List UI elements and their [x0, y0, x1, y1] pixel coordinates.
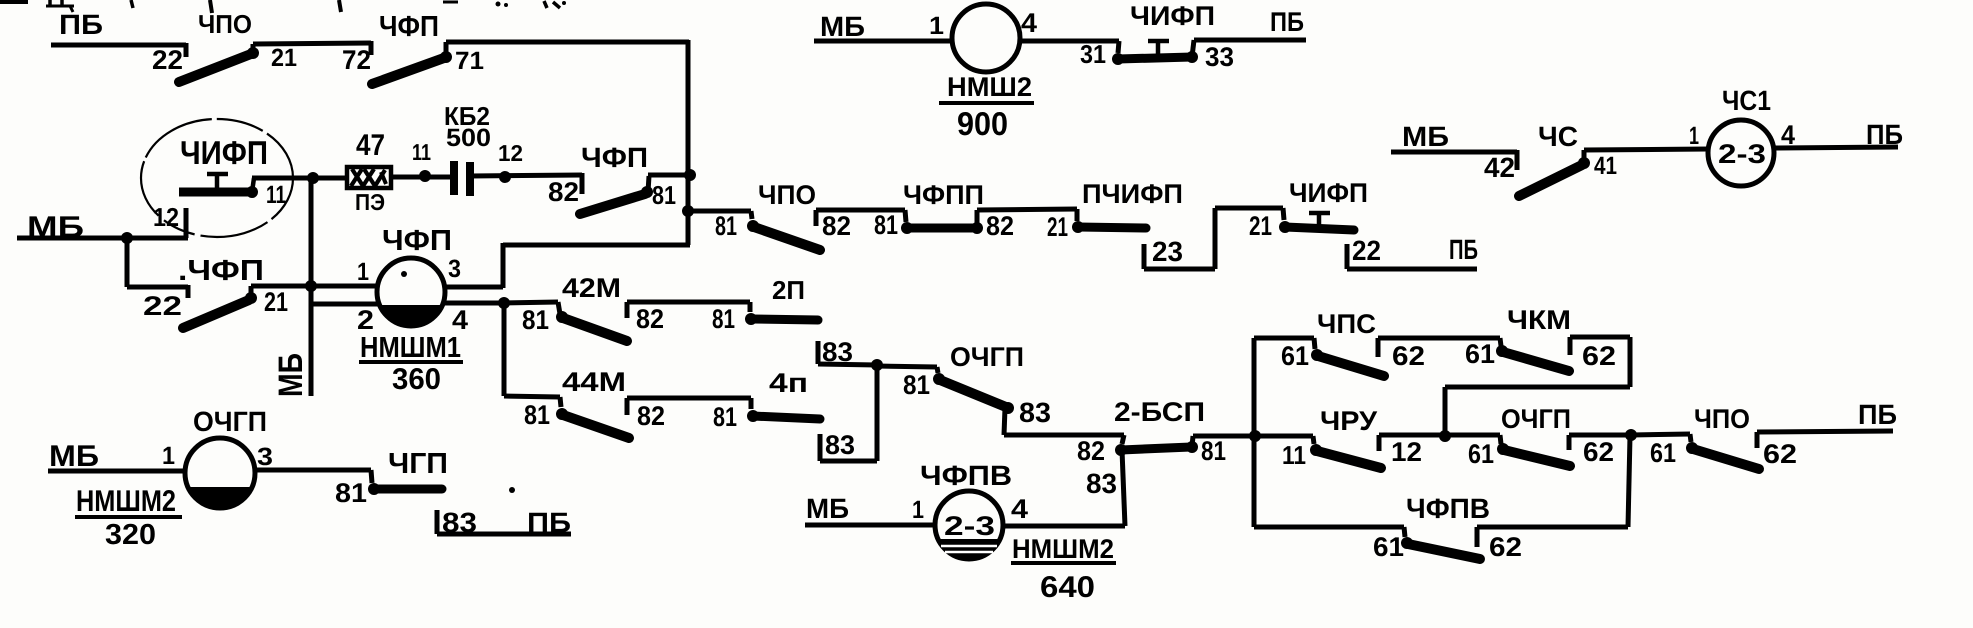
- svg-text:1: 1: [357, 258, 369, 286]
- node junction ЧКМ loop: [1439, 430, 1451, 442]
- relay coil ЧФПВ НМШМ2-640: [935, 491, 1003, 559]
- type underline НМШМ2-640: [1011, 561, 1116, 565]
- wire node to ЧПО armature: [1631, 434, 1691, 442]
- svg-text:31: 31: [1080, 39, 1106, 69]
- pin 62 of contact ЧПО (right): [1763, 439, 1797, 469]
- pin 82 of contact 2-БСП: [1077, 436, 1105, 466]
- label ОЧГП (right): [1501, 404, 1571, 434]
- svg-text:81: 81: [874, 210, 898, 240]
- node ПБ of ЧС chain: [1866, 119, 1903, 150]
- svg-text:ПБ: ПБ: [1866, 119, 1903, 150]
- pin 71 of contact ЧФП: [455, 47, 484, 75]
- svg-text:62: 62: [1489, 532, 1522, 562]
- svg-text:83: 83: [825, 430, 855, 460]
- node МБ of ЧФПВ chain: [806, 493, 849, 524]
- pin 21 of contact .ЧФП: [264, 287, 288, 317]
- pin 21 of contact ЧИФП (right): [1249, 211, 1272, 241]
- wire .ЧФП 21 to rail: [251, 284, 311, 289]
- svg-text:62: 62: [1582, 341, 1616, 371]
- wire rail to ЧПО armature: [688, 211, 752, 219]
- svg-text:44М: 44М: [562, 367, 626, 397]
- svg-text:21: 21: [271, 44, 297, 72]
- wire ОЧГП 62 to node: [1569, 435, 1631, 450]
- svg-text:640: 640: [1040, 571, 1095, 604]
- contact .ЧФП 22-21 (break): [183, 286, 257, 328]
- label ЧПО: [198, 9, 252, 39]
- label 2П: [772, 275, 805, 305]
- svg-text:82: 82: [636, 304, 664, 334]
- svg-text:72: 72: [342, 45, 371, 75]
- wire relay ЧФПВ pin4 up: [1003, 524, 1125, 529]
- label ЧФП (capacitor chain): [581, 142, 648, 173]
- pin 83 of ЧГП stub: [442, 507, 477, 538]
- svg-text:22: 22: [152, 45, 183, 75]
- svg-text:ЧФП: ЧФП: [581, 142, 648, 173]
- contact 2-БСП 82-81 (closed bar): [1115, 436, 1198, 456]
- svg-text:82: 82: [986, 211, 1014, 241]
- front-contact mark of ЧИФП (top): [1148, 41, 1169, 56]
- contact ЧИФП 21-22 (make, armature bar): [1279, 221, 1354, 233]
- svg-text:ЧИФП: ЧИФП: [180, 134, 268, 171]
- svg-text:ОЧГП: ОЧГП: [193, 406, 267, 437]
- pin 61 of contact ЧФПВ: [1373, 532, 1404, 562]
- svg-text:12: 12: [498, 140, 523, 166]
- label ЧПО (middle): [758, 180, 816, 210]
- svg-text:11: 11: [412, 139, 431, 165]
- node ПБ (right end): [1858, 399, 1897, 430]
- pin 1 of relay ЧФПВ: [912, 496, 924, 524]
- label ЧКМ: [1507, 305, 1571, 335]
- wire ОЧГП 83 down to 2-БСП: [1004, 408, 1124, 444]
- pin 1 of relay ЧС1: [1689, 122, 1699, 150]
- svg-text:61: 61: [1650, 438, 1676, 468]
- label ЧФПВ (contact): [1406, 493, 1490, 524]
- label ЧФП of relay: [382, 225, 452, 257]
- wire 83 lower loop: [820, 365, 877, 461]
- svg-text:71: 71: [455, 47, 484, 75]
- label ЧПС: [1317, 309, 1376, 339]
- svg-text:2: 2: [357, 305, 374, 335]
- pin 83 upper label: [822, 337, 853, 367]
- svg-text:МБ: МБ: [272, 353, 310, 397]
- svg-text:320: 320: [105, 519, 156, 551]
- svg-text:61: 61: [1281, 341, 1309, 371]
- front-contact mark of ЧИФП (right): [1309, 213, 1330, 228]
- node junction right rail: [1625, 429, 1637, 441]
- label ЧИФП (encircled): [180, 134, 268, 171]
- svg-text:4: 4: [1021, 8, 1037, 38]
- contact ЧПО 61-62 (break, armature left): [1686, 442, 1759, 469]
- label ОЧГП of relay: [193, 406, 267, 437]
- contact ЧГП 81 (half bar): [368, 483, 442, 495]
- wire ЧФПВ 62 to right rail: [1477, 436, 1630, 547]
- pin 11 of contact ЧИФП: [266, 181, 286, 209]
- type underline НМШМ1: [359, 360, 463, 364]
- wire ЧПО 62 to ПБ: [1757, 431, 1893, 448]
- pin 81 of contact 44М: [524, 400, 550, 430]
- label 2-БСП: [1114, 397, 1205, 427]
- contact ЧПО 22-21 (break): [179, 44, 259, 82]
- svg-text:3: 3: [448, 255, 461, 283]
- pin 81 of contact ЧФПП: [874, 210, 898, 240]
- label МБ (rotated stub label): [272, 353, 310, 397]
- wire ЧРУ 12 to ОЧГП: [1379, 435, 1500, 451]
- value 360 of relay ЧФП: [392, 363, 441, 396]
- pin 4 of relay ЧФПВ: [1011, 494, 1028, 524]
- wire pin4 down to 44М row: [504, 303, 561, 407]
- pin 83 lower label: [825, 430, 855, 460]
- pin 1 of relay ЧФП: [357, 258, 369, 286]
- wire МБ to ЧС terminal 42: [1391, 150, 1517, 170]
- svg-text:360: 360: [392, 363, 441, 396]
- pin 81 of contact ЧГП: [335, 478, 367, 508]
- svg-text:ЧФП: ЧФП: [379, 11, 439, 43]
- svg-text:22: 22: [143, 291, 182, 321]
- wire ЧПС 62 to ЧКМ: [1378, 338, 1500, 357]
- stray mark top edge 5: [339, 0, 341, 12]
- pin 81 of contact 42М: [522, 305, 549, 335]
- svg-text:ЧПО: ЧПО: [1694, 404, 1750, 434]
- pin 61 of contact ЧКМ: [1465, 339, 1495, 369]
- svg-text:82: 82: [637, 401, 665, 431]
- type НМШМ2 of relay ЧФПВ: [1012, 534, 1114, 564]
- contact ЧФП 82-81 (break): [580, 176, 653, 214]
- pin 81 of contact 2-БСП: [1201, 436, 1226, 466]
- svg-text:ПЭ: ПЭ: [355, 189, 385, 215]
- terminal 83-ПБ stub of ЧГП: [437, 510, 571, 534]
- svg-text:33: 33: [1205, 42, 1234, 72]
- pin 82 of contact 44М: [637, 401, 665, 431]
- pin 81 of contact ОЧГП: [903, 370, 930, 400]
- svg-text:ЧРУ: ЧРУ: [1320, 406, 1378, 436]
- svg-text:81: 81: [522, 305, 549, 335]
- contact ЧФПП 81-82 (closed bar): [901, 210, 983, 234]
- wire pin1 rail to relay ЧФП: [311, 284, 378, 289]
- svg-text:81: 81: [903, 370, 930, 400]
- value 2-3 of relay ЧС1: [1718, 139, 1766, 169]
- svg-text:1: 1: [912, 496, 924, 524]
- pin 4 of relay НМШ2: [1021, 8, 1037, 38]
- wire pin2 corner: [311, 302, 379, 307]
- wire bottom branch to ЧФПВ: [1254, 527, 1405, 537]
- label ЧИФП (top): [1130, 1, 1215, 31]
- value 47 of resistor: [356, 129, 385, 162]
- terminal 22 step-down of ЧИФП: [1347, 244, 1477, 269]
- svg-text:12: 12: [1391, 437, 1422, 467]
- svg-text:МБ: МБ: [49, 440, 99, 473]
- wire relay ЧС1 pin4 to ПБ: [1774, 147, 1898, 148]
- value 640 of relay ЧФПВ: [1040, 571, 1095, 604]
- wire middle branch to ЧРУ: [1255, 436, 1314, 444]
- pin 21 of contact ЧПО: [271, 44, 297, 72]
- svg-text:81: 81: [713, 402, 737, 432]
- node junction rail-pin1: [305, 280, 317, 292]
- svg-text:23: 23: [1152, 236, 1183, 267]
- svg-text:ОЧГП: ОЧГП: [950, 342, 1024, 372]
- pin 62 of contact ЧФПВ: [1489, 532, 1522, 562]
- svg-text:ОЧГП: ОЧГП: [1501, 404, 1571, 434]
- node A junction: [307, 172, 319, 184]
- wire relay ОЧГП pin3 to ЧГП: [254, 470, 372, 483]
- svg-text:62: 62: [1392, 341, 1425, 371]
- value 500 of capacitor: [446, 124, 491, 152]
- pin 83 of relay ЧФПВ riser: [1086, 468, 1117, 499]
- pin 3 of relay ОЧГП: [257, 443, 273, 471]
- wire tick to 4П armature: [749, 398, 754, 409]
- svg-text:ЧИФП: ЧИФП: [1289, 178, 1368, 208]
- svg-text:ЧПО: ЧПО: [198, 9, 252, 39]
- node junction rail-chain: [682, 205, 694, 217]
- svg-text:21: 21: [264, 287, 288, 317]
- pin 81 of contact 2П: [712, 304, 735, 334]
- capacitor C КБ2 500: [454, 161, 470, 196]
- label 4П: [769, 368, 808, 398]
- label ЧРУ: [1320, 406, 1378, 436]
- svg-text:21: 21: [1047, 212, 1068, 242]
- wire 2-БСП to right network: [1193, 434, 1256, 439]
- svg-text:ЧГП: ЧГП: [388, 448, 448, 480]
- svg-text:ПЧИФП: ПЧИФП: [1082, 179, 1183, 209]
- svg-text:ЧПО: ЧПО: [758, 180, 816, 210]
- svg-text:1: 1: [929, 12, 944, 40]
- svg-text:82: 82: [1077, 436, 1105, 466]
- svg-text:62: 62: [1583, 437, 1614, 467]
- pin 31 of contact ЧИФП (top): [1080, 39, 1106, 69]
- value 320 of relay ОЧГП: [105, 519, 156, 551]
- label ЧФПП: [903, 180, 984, 210]
- type underline НМШ2: [939, 101, 1034, 105]
- node junction МБ split: [121, 232, 133, 244]
- svg-text:42М: 42М: [562, 273, 621, 303]
- pin 61 of contact ОЧГП (right): [1468, 439, 1494, 469]
- wire ЧПО 82 to ЧФПП: [816, 210, 905, 226]
- contact ЧФП 72-71 (break): [372, 42, 452, 84]
- pin 81 of contact ЧПО (middle): [715, 211, 737, 241]
- relay coil ЧС1: [1708, 120, 1774, 186]
- node МБ of ЧС chain: [1402, 121, 1449, 152]
- relay coil ОЧГП НМШМ2-320: [185, 438, 255, 508]
- stray mark top edge 1: [0, 0, 28, 4]
- contact ЧС 42-41 (break): [1519, 150, 1590, 196]
- label ЧС1 of relay: [1722, 85, 1771, 116]
- pin 82 of contact 42М: [636, 304, 664, 334]
- svg-text:61: 61: [1465, 339, 1495, 369]
- stray mark top edge 2: [46, 0, 74, 12]
- terminal 83 upper stub: [818, 341, 877, 365]
- wire МБ feed: [17, 236, 127, 241]
- contact ЧПС 61-62 (break, armature left): [1311, 349, 1384, 376]
- svg-text:ЧФПВ: ЧФПВ: [1406, 493, 1490, 524]
- pin 4 of relay ЧС1: [1781, 120, 1795, 150]
- svg-text:НМШМ2: НМШМ2: [76, 485, 176, 518]
- wire right rail down: [686, 40, 691, 245]
- svg-text:83: 83: [442, 507, 477, 538]
- pin 41 of contact ЧС: [1594, 152, 1617, 180]
- wire relay ЧФП pin4: [444, 301, 504, 306]
- pin 11 of contact ЧРУ: [1282, 440, 1306, 470]
- label ЧПО (right): [1694, 404, 1750, 434]
- wire 42М 82 to 2П: [627, 302, 750, 318]
- label ЧС: [1538, 121, 1578, 152]
- ellipse sketch around ЧИФП contact: [141, 119, 293, 237]
- svg-text:1: 1: [162, 442, 175, 470]
- contact ЧИФП 12-11 (make, armature bar): [179, 186, 258, 198]
- value ПЭ of resistor: [355, 189, 385, 215]
- svg-text:61: 61: [1468, 439, 1494, 469]
- svg-text:НМШМ2: НМШМ2: [1012, 534, 1114, 564]
- svg-text:4: 4: [452, 305, 468, 335]
- wire top branch to ЧПС: [1254, 338, 1315, 349]
- svg-text:ПБ: ПБ: [59, 9, 103, 40]
- svg-text:ПБ: ПБ: [1858, 399, 1897, 430]
- contact ЧФПВ 61-62 (break, armature left): [1401, 537, 1480, 559]
- node МБ (left battery bus label): [27, 211, 84, 244]
- relay coil ЧФП НМШМ1: [377, 258, 445, 326]
- pin 62 of contact ЧКМ: [1582, 341, 1616, 371]
- wire ЧФП 81 to rail: [648, 173, 690, 178]
- svg-text:2П: 2П: [772, 275, 805, 305]
- wire pin4 to contact 42М: [504, 302, 560, 314]
- type underline НМШМ2-320: [75, 515, 182, 519]
- pin 22 of contact .ЧФП: [143, 291, 182, 321]
- label ЧИФП (right): [1289, 178, 1368, 208]
- wire 2-БСП 82 down to relay ЧФПВ pin4: [1122, 450, 1125, 526]
- wire МБ to relay НМШ2 pin1: [814, 39, 953, 44]
- label ОЧГП (middle): [950, 342, 1024, 372]
- svg-text:4: 4: [1011, 494, 1028, 524]
- contact ОЧГП 81-83 (transfer slash): [933, 373, 1014, 414]
- wire ПБ to ЧПО back terminal 22: [51, 43, 186, 57]
- stray ink dot: [509, 487, 515, 493]
- terminal 23 step-down: [1144, 208, 1215, 269]
- front-contact mark of ЧИФП: [207, 174, 228, 189]
- svg-text:ЧС1: ЧС1: [1722, 85, 1771, 116]
- pin 42 of contact ЧС: [1484, 152, 1515, 183]
- contact 42М 81-82 (break, armature left): [556, 311, 627, 341]
- wire step to ЧИФП armature: [1215, 208, 1284, 220]
- pin 3 of relay ЧФП: [448, 255, 461, 283]
- pin 2 of relay ЧФП: [357, 305, 374, 335]
- svg-text:900: 900: [957, 105, 1008, 142]
- type НМШМ2 of relay ОЧГП: [76, 485, 176, 518]
- svg-text:42: 42: [1484, 152, 1515, 183]
- pin 1 of relay ОЧГП: [162, 442, 175, 470]
- wire rail to relay ЧФП pin 3: [503, 243, 690, 288]
- svg-text:22: 22: [1352, 235, 1381, 266]
- svg-text:41: 41: [1594, 152, 1617, 180]
- node ПБ of ЧГП stub: [527, 507, 571, 538]
- contact ОЧГП 61-62 (break, armature left): [1497, 435, 1570, 466]
- pin 62 of contact ОЧГП (right): [1583, 437, 1614, 467]
- label ЧФП (top): [379, 11, 439, 43]
- svg-text:82: 82: [822, 211, 851, 241]
- svg-text:2-3: 2-3: [1718, 139, 1766, 169]
- wire ЧФПП to ПЧИФП: [977, 209, 1077, 221]
- wire МБ down-branch to .ЧФП terminal 22: [127, 238, 188, 298]
- svg-text:11: 11: [266, 181, 286, 209]
- pin 12 of contact ЧРУ: [1391, 437, 1422, 467]
- wire left rail of network: [1252, 338, 1257, 527]
- svg-text:61: 61: [1373, 532, 1404, 562]
- pin 12 of contact ЧИФП: [153, 202, 179, 232]
- stray mark top edge 7: [496, 2, 509, 8]
- svg-text:500: 500: [446, 124, 491, 152]
- wire ЧИФП 11 to node A: [252, 178, 313, 192]
- svg-text:НМШ2: НМШ2: [947, 72, 1032, 102]
- wire top to right rail: [446, 40, 689, 45]
- pin 1 of relay НМШ2: [929, 12, 944, 40]
- svg-text:2-3: 2-3: [944, 511, 995, 541]
- pin 11 of capacitor: [412, 139, 431, 165]
- wire relay ЧФП pin3: [444, 285, 503, 290]
- svg-text:МБ: МБ: [806, 493, 849, 524]
- pin 22 of contact ЧПО: [152, 45, 183, 75]
- wire ЧИФП 33 to ПБ: [1194, 38, 1306, 43]
- wire МБ to relay ЧФПВ pin1: [805, 523, 935, 528]
- contact 44М 81-82 (break, armature left): [556, 408, 629, 438]
- svg-text:47: 47: [356, 129, 385, 162]
- type НМШМ1 of relay ЧФП: [360, 332, 461, 364]
- svg-text:81: 81: [1201, 436, 1226, 466]
- node junction left rail: [1249, 430, 1261, 442]
- stray mark top edge 8: [544, 1, 566, 8]
- wire ЧКМ 62 corner loop: [1445, 337, 1630, 436]
- type НМШ2 of relay: [947, 72, 1032, 102]
- wire 44М 82 to 4П: [627, 398, 751, 415]
- node ПБ (after ЧИФП): [1449, 234, 1478, 265]
- wire ЧПО to ЧФП back terminal 72: [253, 41, 371, 55]
- node ПБ of НМШ2 chain: [1270, 7, 1304, 37]
- svg-text:82: 82: [548, 177, 579, 207]
- svg-text:МБ: МБ: [1402, 121, 1449, 152]
- relay coil НМШ2-900: [952, 4, 1020, 72]
- pin 61 of contact ЧПС: [1281, 341, 1309, 371]
- label .ЧФП: [178, 255, 264, 287]
- pin 22 of contact ЧИФП (right): [1352, 235, 1381, 266]
- stray mark top edge 4: [210, 0, 212, 13]
- value 900 of relay НМШ2: [957, 105, 1008, 142]
- node junction pin4: [498, 297, 510, 309]
- stray mark top edge 3: [131, 0, 133, 8]
- wire ЧС 41 to relay ЧС1: [1584, 149, 1709, 150]
- svg-text:ЧПС: ЧПС: [1317, 309, 1376, 339]
- pin 61 of contact ЧПО (right): [1650, 438, 1676, 468]
- svg-text:ЧИФП: ЧИФП: [1130, 1, 1215, 31]
- node ПБ (top-left battery bus label): [59, 9, 103, 40]
- contact 4П 81 (half bar): [747, 410, 820, 422]
- node 11 capacitor left: [419, 170, 431, 182]
- svg-text:ПБ: ПБ: [527, 507, 571, 538]
- value 2-3 of relay ЧФПВ: [944, 511, 995, 541]
- label ЧГП: [388, 448, 448, 480]
- svg-text:ПБ: ПБ: [1449, 234, 1478, 265]
- node МБ of НМШ2 chain: [820, 11, 865, 42]
- node junction rail-ЧФП81: [684, 169, 696, 181]
- contact ЧРУ 11-12 (break, armature left): [1310, 444, 1381, 468]
- svg-text:1: 1: [1689, 122, 1699, 150]
- pin 81 of contact 4П: [713, 402, 737, 432]
- pin 4 of relay ЧФП: [452, 305, 468, 335]
- pin 23 of contact ПЧИФП: [1152, 236, 1183, 267]
- resistor R 47 ПЭ (hatched box): [347, 167, 391, 188]
- svg-text:2-БСП: 2-БСП: [1114, 397, 1205, 427]
- svg-text:ПБ: ПБ: [1270, 7, 1304, 37]
- contact 2П 81 (half bar): [745, 313, 818, 325]
- wire resistor to capacitor: [392, 175, 451, 180]
- svg-text:.ЧФП: .ЧФП: [178, 255, 264, 287]
- label 42М: [562, 273, 621, 303]
- label ПЧИФП: [1082, 179, 1183, 209]
